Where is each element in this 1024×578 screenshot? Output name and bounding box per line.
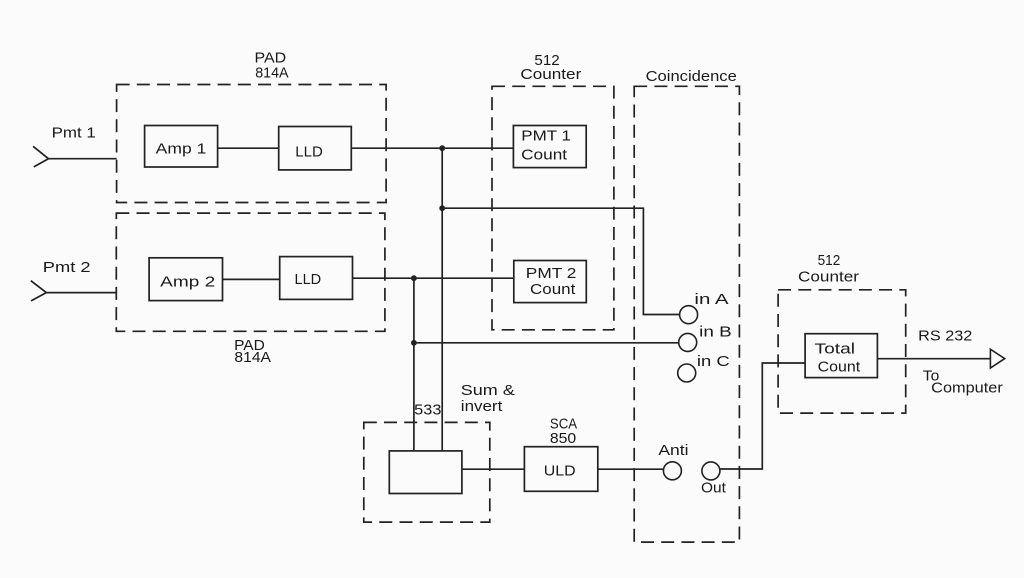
svg-text:Counter: Counter [798,269,859,286]
svg-text:512: 512 [818,252,841,269]
svg-text:533: 533 [414,402,441,419]
svg-text:814A: 814A [255,65,288,82]
svg-text:ULD: ULD [544,463,576,480]
svg-text:Coincidence: Coincidence [646,68,737,85]
svg-text:850: 850 [550,430,576,447]
svg-text:in B: in B [699,324,732,341]
svg-text:PMT 1: PMT 1 [521,128,571,145]
svg-text:LLD: LLD [295,271,322,288]
svg-text:Total: Total [815,340,856,357]
svg-text:in A: in A [694,291,728,308]
svg-text:Pmt 2: Pmt 2 [43,259,91,276]
svg-text:Count: Count [521,146,568,163]
svg-text:Computer: Computer [931,380,1003,397]
svg-text:Sum &: Sum & [461,382,515,399]
svg-text:Out: Out [701,479,727,496]
svg-text:Amp 1: Amp 1 [156,140,207,157]
svg-text:814A: 814A [234,349,271,366]
svg-text:PMT 2: PMT 2 [526,265,577,282]
svg-text:invert: invert [461,398,503,415]
svg-text:Amp 2: Amp 2 [160,273,215,290]
svg-text:Counter: Counter [520,66,581,83]
svg-text:Anti: Anti [658,442,688,459]
svg-text:Pmt 1: Pmt 1 [52,125,96,142]
svg-text:RS 232: RS 232 [918,327,972,344]
svg-text:in C: in C [697,353,730,370]
svg-text:Count: Count [530,281,576,298]
svg-text:LLD: LLD [295,143,323,160]
svg-text:Count: Count [818,358,861,375]
